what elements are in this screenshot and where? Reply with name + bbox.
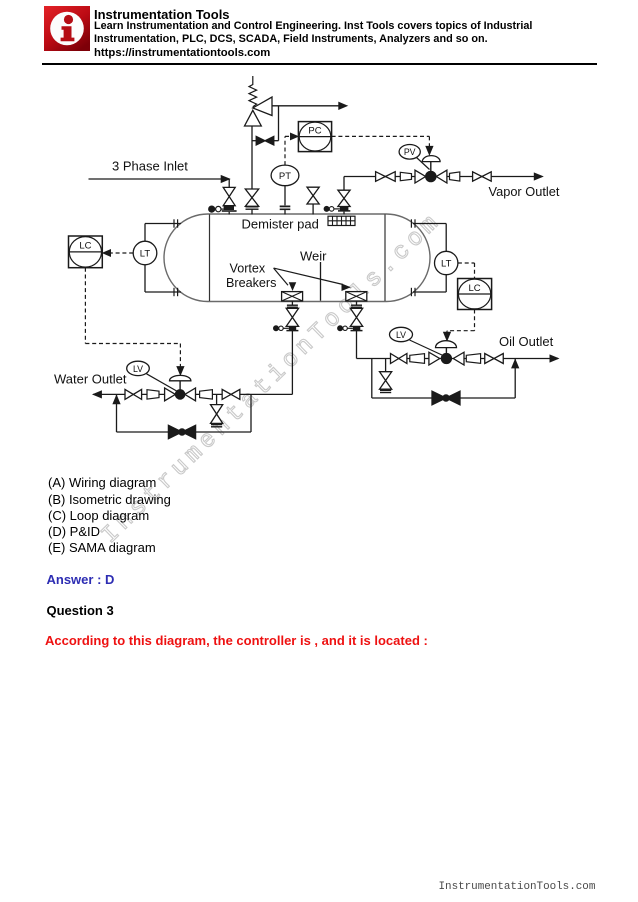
demister pad [328,216,355,225]
water leg lock handle [274,326,279,331]
wire oil leg [356,331,358,359]
separator vessel shell [164,214,430,302]
instrument tag LV water [147,374,178,392]
vortex breakers pointer left [274,268,288,285]
valve water leg block [286,308,298,317]
level transmitter LT (right) [435,251,458,274]
instrument tag PV [417,158,430,170]
valve vapor block (x344) [338,190,350,198]
vortex breaker (oil) [346,292,367,301]
PSV spring [249,76,257,107]
control valve PV body [415,170,426,183]
wire PSV outlet header [272,105,340,107]
svg-text:Breakers: Breakers [226,276,276,290]
signal LC-right to LV oil [474,310,476,331]
inlet nozzle flange (locked) [224,206,234,210]
valve water drain [216,394,218,404]
vessel partition left [209,214,211,301]
pressure transmitter PT [271,165,299,186]
svg-text:PV: PV [404,147,416,157]
valve vapor isolation 1 [376,172,386,182]
svg-text:Weir: Weir [300,248,327,263]
svg-text:LV: LV [396,330,406,340]
vortex breakers pointer right [274,268,343,284]
vortex breaker (water) [282,292,303,301]
header title [94,7,230,22]
wire vapor header [343,212,345,215]
wire water bypass [116,394,118,432]
oil leg flange (locked) [353,327,360,331]
signal LT-right to LC-right [458,262,475,264]
signal PC to PV [332,135,430,137]
valve oil bypass (closed) [432,391,446,405]
svg-text:LT: LT [140,249,151,260]
header logo [44,6,90,51]
svg-text:Demister pad: Demister pad [242,217,319,232]
valve oil drain [385,359,387,372]
valve vapor isolation 2 [473,172,482,181]
svg-text:3 Phase Inlet: 3 Phase Inlet [112,158,188,173]
valve inlet isolation [223,187,235,196]
level controller LC (left) [69,236,103,268]
svg-text:Oil Outlet: Oil Outlet [499,334,554,349]
water leg flange (locked) [289,327,296,331]
level transmitter LT (left) [133,241,157,265]
nozzle flange ticks left bottom [173,288,175,296]
vapor nozzle flange (locked) [340,207,349,211]
pressure controller PC [298,122,331,152]
vapor lock handle [324,206,329,211]
svg-text:Vortex: Vortex [230,261,266,275]
nozzle flange ticks right top [410,219,412,227]
control valve LV oil body [429,352,440,365]
svg-text:LC: LC [79,241,91,252]
wire oil header [357,358,559,360]
signal PT to PC [284,136,286,165]
control valve LV water body [165,388,176,401]
header description [94,20,554,60]
signal LT-left to LC-left [108,252,133,254]
wire oil bypass [371,359,373,399]
reducer water right [200,390,213,399]
reducer vapor left [400,172,411,180]
reducer vapor right [450,172,460,181]
reducer oil right [466,354,480,364]
svg-text:Water Outlet: Water Outlet [54,371,127,386]
wire PSV blowdown drop [278,106,280,141]
nozzle flange ticks left top [173,219,175,227]
wire inlet line [89,178,230,180]
wire water leg [291,331,293,395]
header rule [42,63,597,65]
svg-text:Vapor Outlet: Vapor Outlet [489,184,560,199]
wire water bottom nozzle [291,301,293,304]
footer [439,881,596,893]
wire LT-left taps [144,224,146,242]
wire oil bottom nozzle [356,301,358,304]
question 3 heading [47,603,114,618]
valve oil isolation 1 [391,354,399,364]
svg-text:LC: LC [469,283,481,294]
options list [48,475,171,556]
valve oil isolation 2 [485,354,494,364]
valve PSV bypass (closed) [256,136,265,145]
valve PSV isolation [245,189,258,198]
svg-text:PC: PC [308,125,321,136]
level controller LC (right) [458,279,492,310]
valve water isolation 2 [222,389,231,399]
oil leg lock handle [338,326,343,331]
signal LC-left to LV water [84,268,86,344]
svg-text:LT: LT [441,259,452,270]
weir plate [320,262,322,301]
inlet lock handle [209,206,215,212]
valve water bypass (closed) [168,425,182,438]
valve water isolation 1 [125,389,133,399]
wire LT-right taps [445,224,447,252]
relief valve PSV [245,110,262,126]
wire PT tap [284,210,286,214]
vessel partition right [384,214,386,301]
nozzle flange ticks right bottom [410,288,412,296]
wire water header [93,393,292,395]
answer [47,572,115,587]
reducer oil left [410,354,425,364]
wire inlet nozzle [228,212,230,215]
reducer water left [147,390,159,399]
instrument tag LV oil [410,340,444,356]
valve oil leg block [350,308,362,317]
svg-text:LV: LV [133,364,143,374]
question 3 text [45,633,428,648]
valve vent (x313) [312,204,314,214]
svg-text:PT: PT [279,171,291,182]
wire PSV riser [251,210,253,215]
